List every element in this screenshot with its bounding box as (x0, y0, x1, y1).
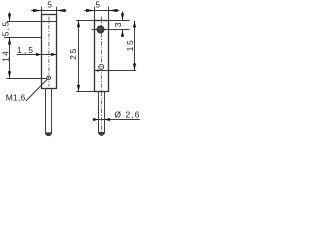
svg-text:3: 3 (113, 22, 123, 27)
svg-text:5: 5 (47, 0, 52, 10)
svg-text:25: 25 (68, 47, 78, 60)
svg-text:5,5: 5,5 (1, 20, 11, 36)
svg-text:M1,6: M1,6 (6, 93, 26, 103)
svg-text:Ø 2,6: Ø 2,6 (114, 109, 140, 119)
svg-text:5: 5 (95, 0, 100, 10)
svg-text:15: 15 (125, 39, 135, 52)
svg-text:14: 14 (1, 50, 11, 62)
svg-text:1,5: 1,5 (17, 45, 35, 55)
